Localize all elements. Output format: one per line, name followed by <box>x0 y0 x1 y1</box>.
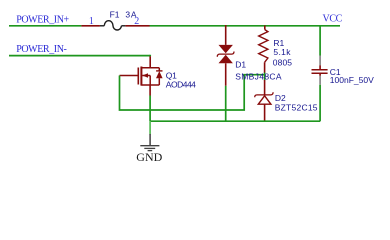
fuse F1 pin 2 <box>125 25 149 27</box>
transistor Q1 arrow <box>142 73 148 78</box>
diode D1 TVS top triangle <box>219 45 233 53</box>
wire D1 to bottom rail <box>225 86 227 121</box>
wire source to bottom rail <box>149 96 151 122</box>
svg-text:VCC: VCC <box>323 14 343 25</box>
svg-text:5.1k: 5.1k <box>273 47 291 57</box>
svg-text:D1: D1 <box>235 60 246 70</box>
diode D1 TVS crossbar <box>217 52 234 57</box>
ground <box>140 134 159 151</box>
transistor Q1 source pin <box>149 85 151 96</box>
diode D2 zener triangle <box>258 96 271 104</box>
capacitor C1 bottom pin <box>319 74 321 76</box>
wire C1 to bottom rail <box>319 85 321 121</box>
fuse F1 body <box>100 21 126 30</box>
fuse F1 pin 1 <box>81 25 100 27</box>
wire POWER_IN+ <box>9 25 81 27</box>
transistor Q1 body <box>138 67 162 86</box>
svg-text:100nF_50V: 100nF_50V <box>330 75 374 85</box>
resistor R1 top pin <box>264 25 266 29</box>
transistor Q1 drain pin <box>149 56 151 67</box>
resistor R1 zigzag <box>259 30 268 63</box>
diode D2 zener crossbar <box>255 92 273 97</box>
wire Q1 drain drop from POWER_IN- <box>149 55 151 56</box>
svg-text:POWER_IN+: POWER_IN+ <box>16 14 69 25</box>
wire bottom rail <box>150 120 320 122</box>
wire gate junction vertical <box>264 72 266 80</box>
svg-text:POWER_IN-: POWER_IN- <box>16 44 66 55</box>
wire GND stub <box>149 121 151 134</box>
wire POWER_IN- <box>9 55 150 57</box>
transistor Q1 gate pin <box>120 75 139 77</box>
wire VCC rail <box>150 25 341 27</box>
diode D1 bottom pin <box>225 63 227 86</box>
capacitor C1 plates <box>312 69 328 71</box>
wire VCC drop to C1 <box>319 26 321 56</box>
diode D2 top pin <box>264 80 266 95</box>
resistor R1 bottom pin <box>264 62 266 72</box>
capacitor C1 top pin <box>319 56 321 66</box>
svg-text:2: 2 <box>134 16 139 27</box>
svg-text:SMBJ48CA: SMBJ48CA <box>235 72 282 82</box>
transistor Q1 body diode triangle <box>156 71 163 78</box>
diode D2 bottom pin <box>264 104 266 121</box>
wire gate net <box>120 75 265 110</box>
svg-text:GND: GND <box>136 150 162 164</box>
svg-text:0805: 0805 <box>273 57 292 67</box>
diode D1 TVS bottom triangle <box>219 55 233 64</box>
diode D1 top pin <box>225 25 227 45</box>
svg-text:AOD444: AOD444 <box>166 80 196 90</box>
svg-text:BZT52C15: BZT52C15 <box>275 102 318 112</box>
svg-text:F1: F1 <box>110 10 120 20</box>
svg-text:1: 1 <box>89 16 94 27</box>
